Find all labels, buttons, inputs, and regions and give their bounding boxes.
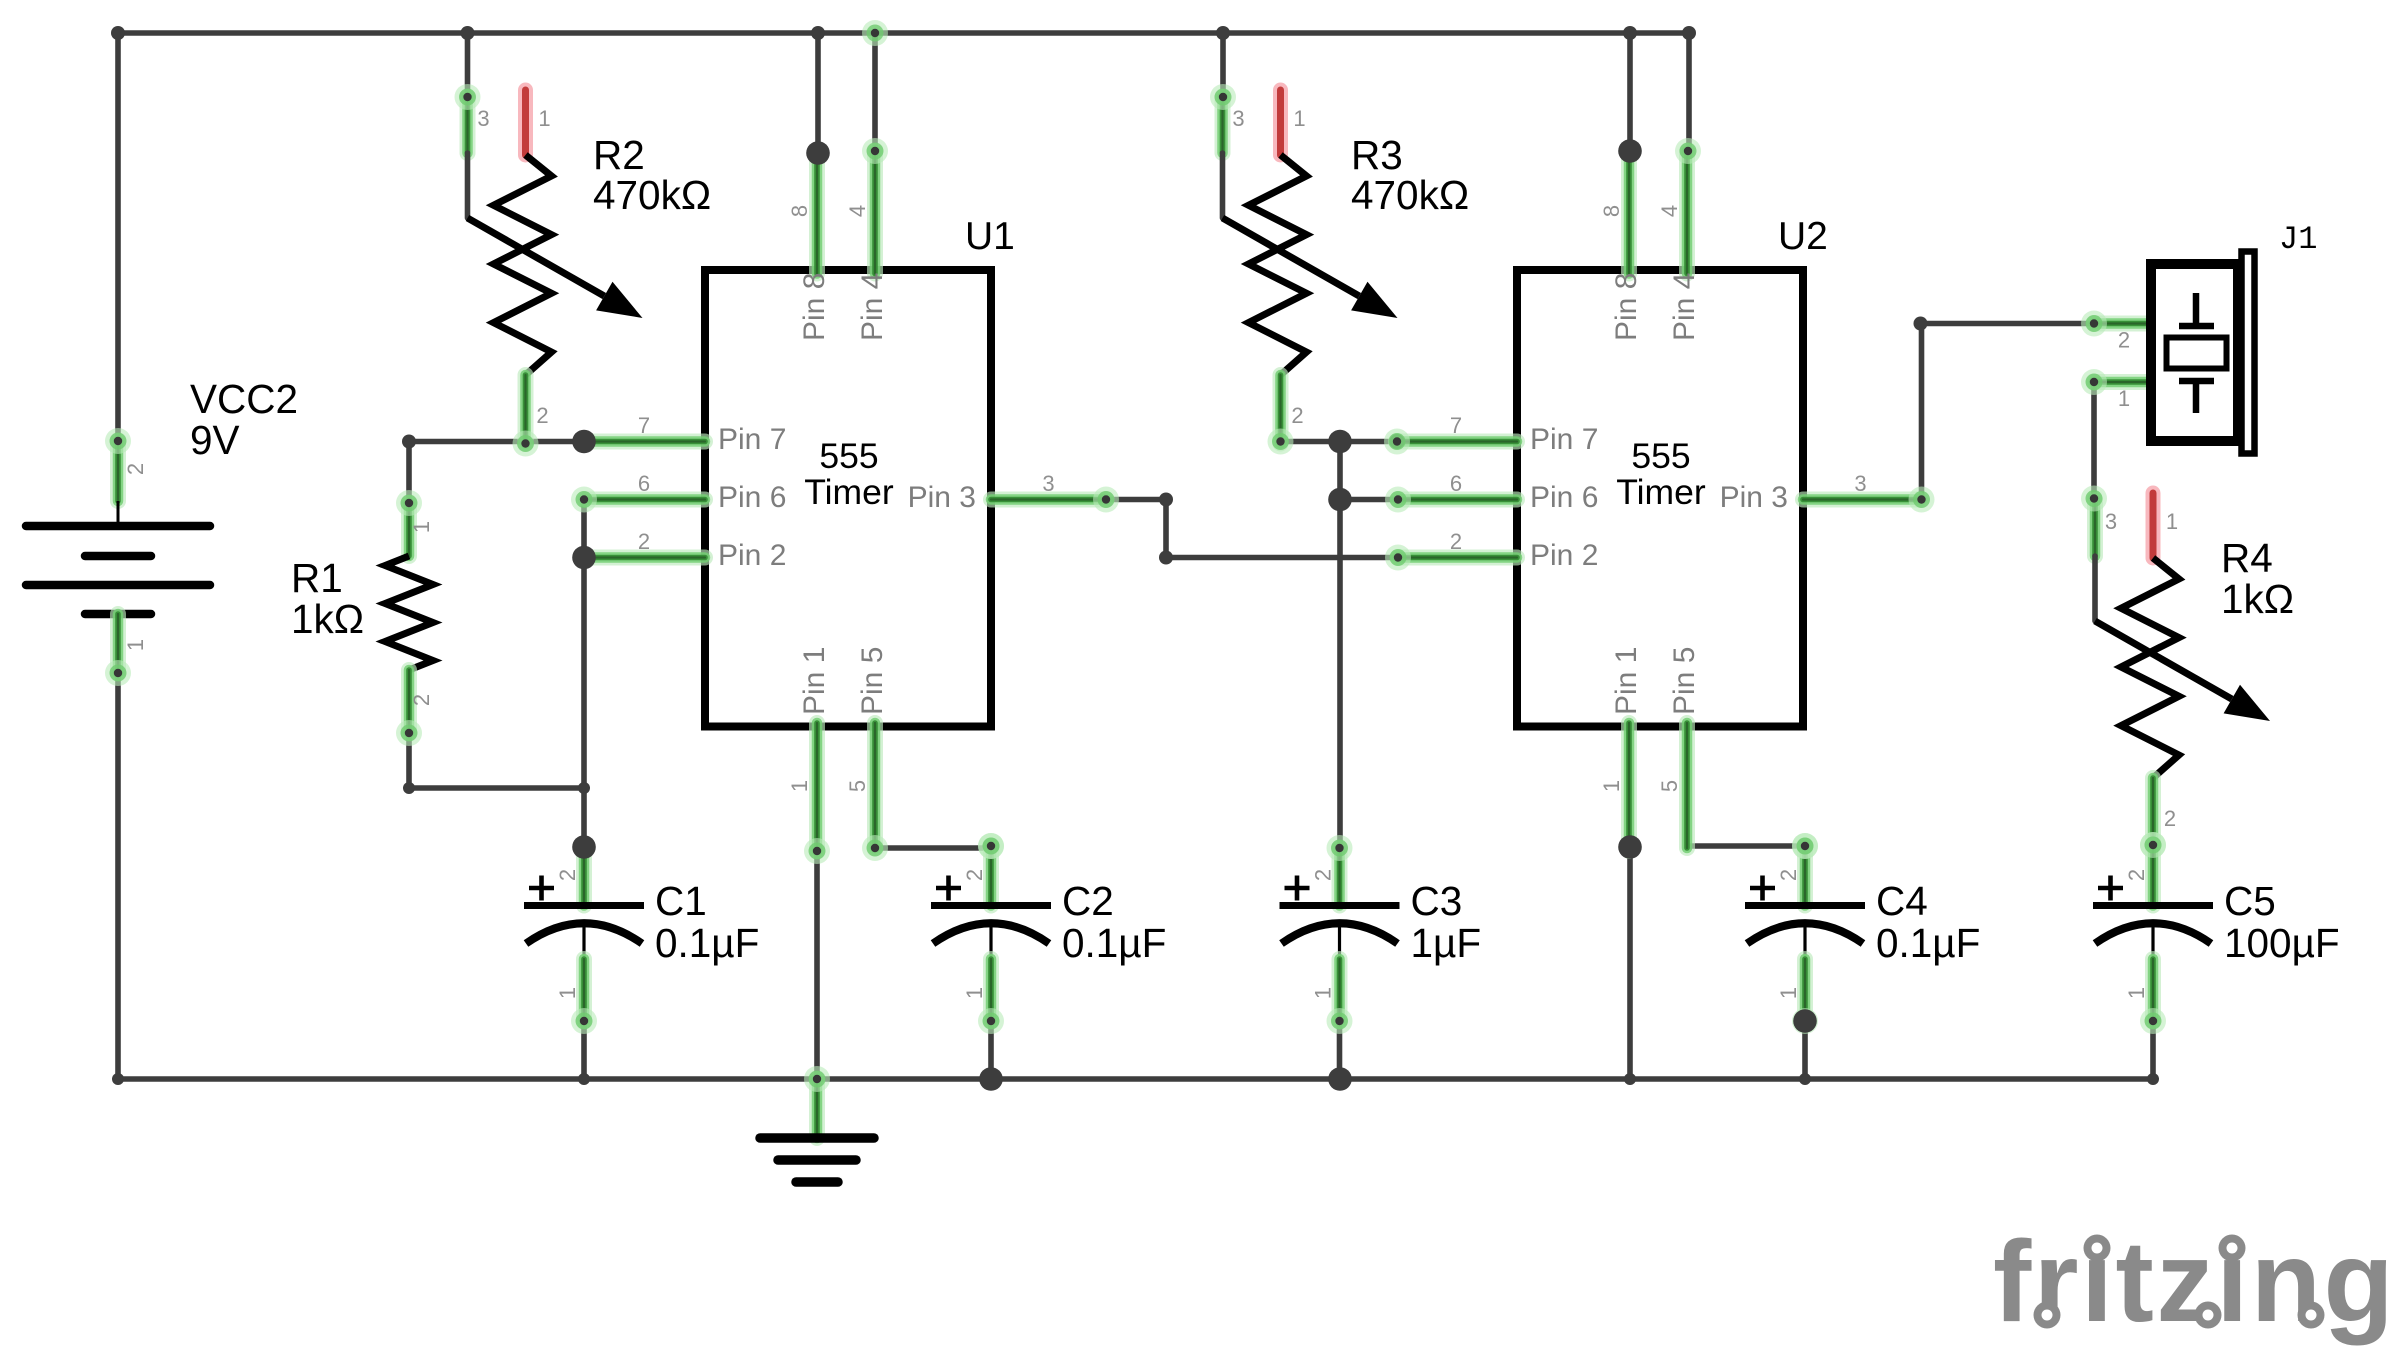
junction dot 10 (979, 1067, 1003, 1091)
node C5 pin1 (2140, 1008, 2166, 1034)
svg-text:4: 4 (845, 205, 870, 217)
svg-text:1: 1 (1293, 106, 1305, 131)
junction bend 1 (111, 26, 125, 40)
junction dot 3 (572, 835, 596, 859)
svg-text:3: 3 (477, 106, 489, 131)
svg-text:2: 2 (555, 869, 580, 881)
potentiometer R3 (1223, 90, 1398, 444)
wire R2 pin3 to top bus (465, 33, 471, 97)
node R4 pin3 (2081, 486, 2107, 512)
fritzing logo (1993, 1218, 2396, 1346)
svg-text:555: 555 (819, 436, 878, 476)
svg-text:Pin 2: Pin 2 (1530, 539, 1598, 572)
wire U2 pin5 to C4 (1687, 843, 1805, 849)
wire battery negative to bottom bus (115, 673, 121, 1079)
svg-text:VCC2: VCC2 (190, 376, 298, 422)
wire C5 to bottom bus (2150, 1021, 2156, 1079)
svg-text:U2: U2 (1778, 215, 1828, 258)
svg-text:1: 1 (123, 639, 148, 651)
svg-text:5: 5 (845, 780, 870, 792)
svg-text:2: 2 (962, 869, 987, 881)
svg-text:2: 2 (2164, 806, 2176, 831)
wire R3 pin3 to top bus (1220, 33, 1226, 97)
wire U1 pin6 pin2 to C1 (581, 500, 587, 848)
svg-text:2: 2 (1776, 869, 1801, 881)
wire nub 4 (578, 1073, 590, 1085)
wire top power bus (118, 30, 1689, 36)
node C2 pin2 (978, 833, 1004, 859)
svg-text:470kΩ: 470kΩ (593, 172, 711, 218)
node ground pin (804, 1066, 830, 1092)
svg-text:1kΩ: 1kΩ (2221, 576, 2294, 622)
node C1 pin1 (571, 1008, 597, 1034)
junction dot 1 (572, 430, 596, 454)
svg-text:2: 2 (1291, 403, 1303, 428)
svg-text:Pin 4: Pin 4 (1668, 273, 1701, 341)
svg-text:7: 7 (638, 413, 650, 438)
node U1 pin1 net (804, 838, 830, 864)
node U2 pin7 net (1390, 434, 1405, 449)
svg-text:1: 1 (409, 521, 434, 533)
svg-text:8: 8 (1599, 205, 1624, 217)
svg-text:1µF: 1µF (1411, 920, 1482, 966)
svg-text:Pin 1: Pin 1 (798, 647, 831, 715)
op-amp U1 555 timer (584, 151, 1107, 851)
wire battery positive to top bus (115, 33, 121, 441)
speaker J1 (2094, 252, 2255, 454)
capacitor C5 (2093, 845, 2213, 1021)
wire nub 5 (1624, 1073, 1636, 1085)
node J1 pin1 (2081, 369, 2107, 395)
svg-text:2: 2 (1311, 869, 1336, 881)
svg-text:C2: C2 (1062, 878, 1114, 924)
svg-text:2: 2 (536, 403, 548, 428)
node C2 pin1 (978, 1008, 1004, 1034)
junction bend 9 (1159, 551, 1173, 565)
junction bend 3 (811, 26, 825, 40)
wire J1 pin1 to R4 pin3 (2091, 382, 2097, 499)
node R2 pin3 (455, 84, 481, 110)
svg-text:1: 1 (1599, 780, 1624, 792)
svg-text:Pin 5: Pin 5 (856, 647, 889, 715)
svg-text:555: 555 (1631, 436, 1690, 476)
junction dot 9 (1793, 1009, 1817, 1033)
svg-text:C4: C4 (1876, 878, 1928, 924)
svg-text:2: 2 (638, 529, 650, 554)
svg-text:6: 6 (638, 471, 650, 496)
wire U2 pin8 to top bus (1627, 33, 1633, 151)
junction dot 5 (1328, 430, 1352, 454)
wire R3 bottom to U2 pin7 (1281, 439, 1398, 445)
junction bend 4 (1216, 26, 1230, 40)
svg-text:1: 1 (555, 987, 580, 999)
node R1 pin1 (396, 490, 422, 516)
capacitor C3 (1280, 848, 1400, 1021)
node C5 pin2 (2140, 832, 2166, 858)
junction bend 7 (402, 435, 416, 449)
wire nub 3 (112, 1073, 124, 1085)
svg-text:Pin 7: Pin 7 (718, 423, 786, 456)
junction dot 7 (1618, 139, 1642, 163)
node U2 pin4 net (1675, 138, 1701, 164)
svg-text:1: 1 (2118, 386, 2130, 411)
junction dot 6 (1328, 488, 1352, 512)
node C2 pin2 net (978, 833, 1004, 859)
node U2 pin2 net (1385, 545, 1411, 571)
wire nub 2 (578, 782, 590, 794)
svg-text:J1: J1 (2279, 221, 2317, 258)
svg-text:C3: C3 (1411, 878, 1463, 924)
svg-text:2: 2 (1450, 529, 1462, 554)
svg-text:2: 2 (409, 694, 434, 706)
wire nub 6 (1799, 1073, 1811, 1085)
wire bottom ground bus (118, 1076, 2153, 1082)
battery VCC2 9V (26, 441, 210, 673)
node C3 pin2 (1327, 835, 1353, 861)
resistor R1 (385, 503, 434, 733)
node U1 pin3 net (1093, 487, 1119, 513)
svg-text:3: 3 (2105, 509, 2117, 534)
svg-text:470kΩ: 470kΩ (1351, 172, 1469, 218)
svg-text:1: 1 (1311, 987, 1336, 999)
svg-text:Pin 7: Pin 7 (1530, 423, 1598, 456)
node U1 pin5 net (862, 835, 888, 861)
svg-text:0.1µF: 0.1µF (655, 920, 759, 966)
svg-text:3: 3 (1042, 471, 1054, 496)
node R4 pin2 (2140, 832, 2166, 858)
wire R1 bottom to C1 column (409, 733, 584, 788)
junction bend 2 (461, 26, 475, 40)
node U2 pin3 net (1909, 487, 1935, 513)
potentiometer R4 (2095, 493, 2270, 847)
svg-text:Pin 6: Pin 6 (718, 481, 786, 514)
svg-text:Pin 6: Pin 6 (1530, 481, 1598, 514)
svg-text:Pin 1: Pin 1 (1610, 647, 1643, 715)
svg-text:1: 1 (538, 106, 550, 131)
node U1 pin6 net (571, 487, 597, 513)
svg-text:3: 3 (1232, 106, 1244, 131)
node J1 pin2 (2081, 311, 2107, 337)
wire U1 pin5 to C2 (875, 845, 991, 851)
svg-text:Pin 8: Pin 8 (1610, 273, 1643, 341)
svg-text:2: 2 (2124, 869, 2149, 881)
svg-text:Timer: Timer (804, 472, 894, 512)
wire C1 to bottom bus (581, 1021, 587, 1079)
potentiometer R2 (468, 90, 643, 444)
wire U1 pin8 to top bus (815, 33, 821, 153)
svg-text:8: 8 (787, 205, 812, 217)
capacitor C1 (524, 847, 644, 1021)
node R1 pin2 (396, 720, 422, 746)
wire nub 1 (403, 782, 415, 794)
capacitor C2 (931, 846, 1051, 1021)
svg-text:Pin 8: Pin 8 (798, 273, 831, 341)
svg-text:1: 1 (1776, 987, 1801, 999)
svg-text:100µF: 100µF (2224, 920, 2340, 966)
svg-text:9V: 9V (190, 417, 240, 463)
svg-text:C5: C5 (2224, 878, 2276, 924)
svg-text:Pin 4: Pin 4 (856, 273, 889, 341)
svg-text:R1: R1 (291, 555, 343, 601)
svg-text:Pin 3: Pin 3 (908, 481, 976, 514)
svg-text:R4: R4 (2221, 535, 2273, 581)
op-amp U2 555 timer (1396, 151, 1919, 851)
svg-text:5: 5 (1657, 780, 1682, 792)
wire C2 to bottom bus (988, 1021, 994, 1079)
svg-text:Pin 3: Pin 3 (1720, 481, 1788, 514)
svg-text:3: 3 (1854, 471, 1866, 496)
node R2 pin2 (513, 431, 539, 457)
junction bend 8 (1159, 493, 1173, 507)
wire U1 pin3 output to U2 pin2 (1106, 500, 1398, 558)
junction dot 2 (572, 546, 596, 570)
node U1 pin4 net (862, 138, 888, 164)
junction bend 6 (1682, 26, 1696, 40)
svg-text:1: 1 (962, 987, 987, 999)
svg-text:0.1µF: 0.1µF (1062, 920, 1166, 966)
wire U2 pin1 to bottom bus (1627, 847, 1633, 1079)
node R3 pin2 (1268, 429, 1294, 455)
svg-text:2: 2 (123, 463, 148, 475)
svg-text:Pin 2: Pin 2 (718, 539, 786, 572)
capacitor C4 (1745, 846, 1865, 1021)
node C3 pin1 (1327, 1008, 1353, 1034)
wire U2 pin4 to top bus (1686, 33, 1692, 151)
node top bus U1 pin4 junction (862, 20, 888, 46)
svg-text:6: 6 (1450, 471, 1462, 496)
svg-text:U1: U1 (965, 215, 1015, 258)
svg-text:1: 1 (2166, 509, 2178, 534)
svg-text:7: 7 (1450, 413, 1462, 438)
svg-text:Timer: Timer (1616, 472, 1706, 512)
svg-text:1: 1 (2124, 987, 2149, 999)
junction dot 4 (806, 141, 830, 165)
svg-text:4: 4 (1657, 205, 1682, 217)
junction bend 5 (1623, 26, 1637, 40)
svg-text:2: 2 (2118, 328, 2130, 353)
node battery pin1 (105, 660, 131, 686)
svg-text:1: 1 (787, 780, 812, 792)
node C4 pin1 (1792, 1008, 1818, 1034)
junction dot 8 (1618, 835, 1642, 859)
node C4 pin2 net (1792, 833, 1818, 859)
wire nub 7 (2147, 1073, 2159, 1085)
wire R1 top to R2 bottom and U1 pin7 (409, 442, 584, 504)
node battery pin2 (105, 428, 131, 454)
node R3 pin3 (1210, 84, 1236, 110)
junction dot 11 (1328, 1067, 1352, 1091)
node C4 pin2 (1792, 833, 1818, 859)
wire C4 to bottom bus (1802, 1021, 1808, 1079)
svg-text:Pin 5: Pin 5 (1668, 647, 1701, 715)
junction bend 10 (1914, 317, 1928, 331)
ground (760, 1079, 874, 1182)
node U2 pin6 net (1385, 487, 1411, 513)
svg-text:0.1µF: 0.1µF (1876, 920, 1980, 966)
wire U1 pin1 to ground (814, 851, 820, 1079)
wire C3 to bottom bus (1337, 1021, 1343, 1079)
wire U2 pin6 stub (1340, 497, 1398, 503)
wire C3 to U2 pin6 and R3 (1337, 442, 1343, 849)
wire U1 pin4 to top bus (872, 33, 878, 151)
svg-text:C1: C1 (655, 878, 707, 924)
wire U2 pin3 to speaker J1 (1922, 324, 2095, 500)
svg-text:1kΩ: 1kΩ (291, 596, 364, 642)
